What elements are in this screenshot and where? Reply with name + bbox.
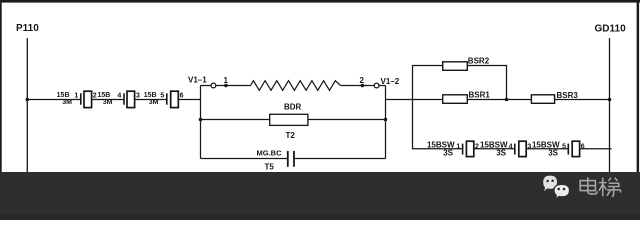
node V1-2 terminal — [374, 77, 400, 88]
wechat logo big bubble — [543, 176, 557, 192]
svg-text:3: 3 — [136, 93, 140, 100]
wire 15BSW terminal 6 to GD110 bus — [580, 148, 612, 150]
wire block right vertical — [385, 86, 387, 159]
svg-text:BSR2: BSR2 — [468, 56, 490, 65]
wire between 15BSW terminal 3 and 5 — [526, 148, 568, 150]
frame borders (decorative) — [0, 0, 640, 3]
wire BSR2 to junction — [467, 66, 506, 100]
svg-text:15B: 15B — [144, 92, 157, 99]
node junction on P110 — [26, 98, 30, 102]
watermark text dian (电) — [580, 177, 597, 194]
terminal 15B pins 4-3 with value 3M — [97, 91, 140, 107]
wire BSR1 to junction node — [467, 99, 531, 101]
resistor BDR / T2 middle branch — [199, 103, 388, 140]
capacitor MG.BC / T5 bottom branch — [201, 148, 386, 171]
svg-text:3M: 3M — [149, 99, 159, 106]
svg-text:5: 5 — [160, 93, 164, 100]
svg-text:T5: T5 — [265, 163, 275, 172]
svg-text:BSR3: BSR3 — [557, 91, 579, 100]
terminal 15BSW pins 4-3 with value 3S — [480, 140, 531, 157]
wire BSR2 parallel branch — [413, 66, 443, 100]
wire circle to node 1 — [216, 85, 251, 87]
wire between 15BSW terminal 2 and 4 — [474, 148, 515, 150]
svg-text:T2: T2 — [286, 131, 296, 140]
wire P110 bus — [26, 38, 28, 172]
wire between terminal 3 and 5 — [135, 99, 167, 101]
svg-text:MG.BC: MG.BC — [257, 148, 283, 157]
resistor zigzag — [251, 81, 341, 91]
svg-text:3M: 3M — [103, 99, 113, 106]
svg-text:1: 1 — [456, 143, 460, 150]
wire block left vertical — [200, 86, 202, 159]
svg-text:4: 4 — [117, 93, 121, 100]
wire from terminal 6 into block left — [178, 99, 200, 101]
wire main out of block to BSR1 — [386, 99, 443, 101]
svg-text:GD110: GD110 — [595, 24, 627, 35]
svg-text:1: 1 — [74, 93, 78, 100]
svg-text:1: 1 — [224, 76, 229, 85]
node 2 — [360, 76, 365, 87]
wire resistor to node 2 — [341, 85, 375, 87]
terminal 15BSW pins 1-2 with value 3S — [427, 140, 479, 157]
svg-text:4: 4 — [509, 143, 513, 150]
wire GD110 bus — [609, 38, 611, 172]
wechat logo small bubble — [554, 184, 570, 199]
svg-text:V1–2: V1–2 — [381, 77, 400, 86]
svg-text:BSR1: BSR1 — [469, 90, 491, 99]
resistor BSR2 — [443, 56, 490, 70]
resistor BSR3 — [531, 91, 578, 104]
terminal 15B pins 1-2 with value 3M — [57, 91, 97, 107]
terminal 15B pins 5-6 with value 3M — [144, 91, 184, 107]
svg-text:3M: 3M — [62, 99, 72, 106]
svg-text:3S: 3S — [496, 149, 506, 158]
svg-text:15B: 15B — [57, 92, 70, 99]
svg-text:3S: 3S — [443, 149, 453, 158]
watermark text ti (梯) — [599, 178, 621, 197]
svg-text:15B: 15B — [97, 92, 110, 99]
svg-text:V1–1: V1–1 — [188, 76, 207, 85]
resistor BSR1 — [443, 90, 491, 103]
svg-text:BDR: BDR — [284, 103, 302, 112]
node 1 — [224, 76, 229, 87]
wire between terminal 2 and 4 — [92, 99, 124, 101]
node BSR junction — [505, 98, 509, 102]
node junction on GD110 — [608, 98, 612, 102]
svg-text:3S: 3S — [548, 149, 558, 158]
footer watermark bar — [0, 172, 640, 220]
svg-text:6: 6 — [180, 93, 184, 100]
wire drop to 15BSW branch — [413, 100, 462, 149]
svg-text:P110: P110 — [16, 23, 39, 34]
node V1-1 terminal — [188, 76, 216, 88]
svg-text:2: 2 — [93, 93, 97, 100]
terminal 15BSW pins 5-6 with value 3S — [532, 140, 585, 157]
wire BSR3 to GD110 bus — [555, 99, 610, 101]
svg-text:5: 5 — [562, 143, 566, 150]
wire main from P110 to terminal 15B pin1 — [27, 99, 81, 101]
